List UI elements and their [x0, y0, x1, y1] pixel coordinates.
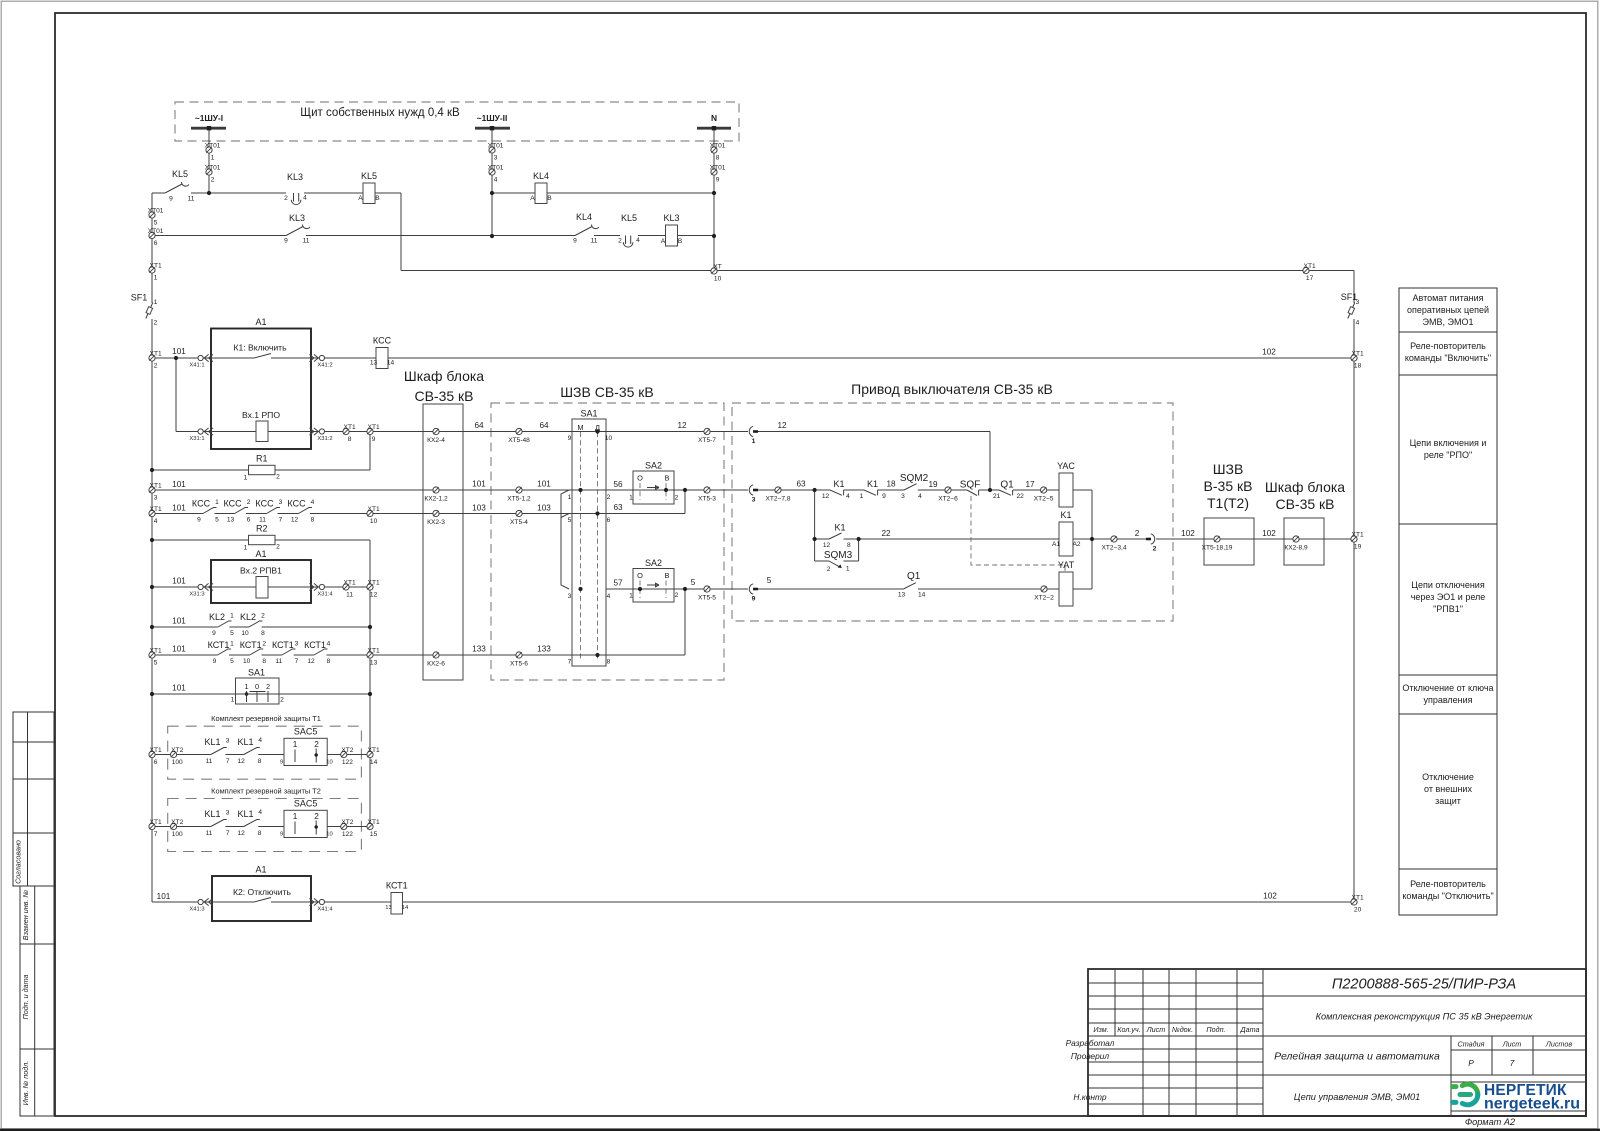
stamp box Soglasovano	[13, 712, 54, 886]
svg-text:9: 9	[716, 177, 720, 184]
logo Energeteek	[1462, 1084, 1478, 1094]
svg-text:12: 12	[822, 493, 830, 500]
svg-text:XT1: XT1	[368, 647, 380, 654]
wire RPV1 line b	[268, 586, 370, 588]
svg-text:9: 9	[169, 196, 173, 203]
svg-text:В: В	[665, 571, 670, 580]
svg-text:через ЭО1 и реле: через ЭО1 и реле	[1411, 592, 1486, 602]
svg-text:В-35 кВ: В-35 кВ	[1204, 478, 1253, 494]
svg-text:14: 14	[918, 592, 926, 599]
junction KL2-r	[368, 625, 372, 629]
coil SAC5 T1	[284, 738, 327, 765]
svg-text:X31:2: X31:2	[317, 436, 332, 442]
coil YAC	[1059, 473, 1073, 507]
svg-text:СВ-35 кВ: СВ-35 кВ	[414, 388, 473, 404]
svg-text:2: 2	[1135, 529, 1140, 538]
terminal XT01-6	[149, 232, 155, 238]
svg-text:КСТ1: КСТ1	[386, 881, 408, 891]
svg-text:Лист: Лист	[1502, 1040, 1522, 1049]
svg-text:КХ2-8,9: КХ2-8,9	[1284, 545, 1308, 552]
cable connector input 9	[749, 584, 753, 594]
junction SA2b	[638, 587, 642, 591]
svg-text:~1ШУ-II: ~1ШУ-II	[477, 113, 508, 123]
svg-text:Инв. № подл.: Инв. № подл.	[21, 1061, 30, 1106]
svg-text:Подп.: Подп.	[1206, 1025, 1225, 1034]
svg-text:12: 12	[777, 421, 787, 430]
svg-text:8: 8	[327, 658, 331, 665]
contact K1 Vklyuchit	[254, 354, 271, 359]
svg-text:Комплект резервной защиты Т1: Комплект резервной защиты Т1	[211, 714, 321, 723]
svg-text:XT1: XT1	[150, 262, 162, 269]
svg-text:122: 122	[342, 831, 353, 838]
wire right vertical bus	[1353, 358, 1355, 902]
contact K1 12-8	[829, 533, 842, 539]
svg-text:1: 1	[860, 493, 864, 500]
svg-text:КСС: КСС	[287, 499, 306, 509]
junction 101 tap	[174, 356, 178, 360]
wire line2 b	[306, 235, 575, 237]
wire 63 privod c	[878, 489, 905, 491]
svg-text:1: 1	[230, 613, 234, 620]
svg-text:10: 10	[241, 630, 249, 637]
svg-text:Р: Р	[1468, 1058, 1474, 1068]
junction RPV1	[150, 585, 154, 589]
svg-text:2: 2	[247, 499, 251, 506]
connector X41:2	[319, 355, 324, 360]
svg-text:63: 63	[613, 503, 623, 512]
terminal XT1-15	[367, 823, 373, 829]
wire line1 d	[492, 192, 535, 194]
svg-text:4: 4	[1356, 320, 1360, 327]
svg-text:"РПВ1": "РПВ1"	[1433, 604, 1463, 614]
svg-text:2: 2	[154, 320, 158, 327]
svg-text:2: 2	[261, 613, 265, 620]
contact KCC 2	[235, 508, 249, 514]
wire SA1small line	[152, 693, 370, 695]
svg-text:B: B	[547, 195, 552, 202]
svg-text:7: 7	[154, 831, 158, 838]
svg-text:XT2: XT2	[171, 819, 183, 826]
svg-text:3: 3	[154, 495, 158, 502]
svg-text:122: 122	[342, 759, 353, 766]
svg-text:защит: защит	[1435, 796, 1461, 806]
page bottom edge	[0, 1129, 1600, 1131]
terminal XT01-4	[489, 169, 495, 175]
svg-text:2: 2	[618, 238, 622, 245]
svg-text:KL1: KL1	[237, 737, 253, 747]
terminal XT1-12	[367, 584, 373, 590]
coil Vx.2 RPV1	[256, 577, 268, 599]
contact KL3 9-11 line2	[286, 227, 303, 236]
svg-text:SAC5: SAC5	[294, 798, 318, 808]
svg-text:2: 2	[607, 494, 611, 501]
wire T2 line b	[225, 826, 243, 828]
svg-text:1: 1	[568, 494, 572, 501]
svg-text:A1: A1	[1052, 541, 1060, 548]
svg-text:2: 2	[675, 495, 679, 502]
contact KCC 1	[203, 508, 217, 514]
wire RPO line a	[176, 431, 256, 433]
svg-text:XT01: XT01	[710, 142, 726, 149]
junction SA1 d2	[595, 511, 599, 515]
svg-text:8: 8	[348, 436, 352, 443]
svg-text:10: 10	[605, 435, 613, 442]
svg-text:1: 1	[629, 495, 633, 502]
terminal XT1-11	[343, 584, 349, 590]
svg-text:КСС: КСС	[224, 499, 243, 509]
svg-text:KL2: KL2	[209, 612, 225, 622]
svg-text:КСС: КСС	[192, 499, 211, 509]
wire 103 line b	[215, 513, 235, 515]
svg-text:18: 18	[1354, 363, 1362, 370]
svg-text:K1: K1	[833, 479, 844, 489]
wire 5 privod b	[918, 588, 1059, 590]
svg-text:Листов: Листов	[1545, 1040, 1572, 1049]
terminal XT1-10	[367, 510, 373, 516]
wire XT1-9 drop	[369, 432, 371, 471]
svg-text:1: 1	[154, 275, 158, 282]
svg-text:реле "РПО": реле "РПО"	[1424, 450, 1472, 460]
svg-text:КХ2-4: КХ2-4	[427, 437, 445, 444]
wire line1 b	[304, 192, 363, 194]
svg-text:3: 3	[568, 593, 572, 600]
svg-text:Отключение: Отключение	[1422, 772, 1474, 782]
svg-text:Цепи управления ЭМВ, ЭМ01: Цепи управления ЭМВ, ЭМ01	[1294, 1092, 1421, 1102]
svg-text:101: 101	[472, 480, 486, 489]
terminal XT1-13	[367, 652, 373, 658]
svg-text:Q1: Q1	[1000, 480, 1014, 491]
wire T1 line b	[225, 754, 243, 756]
svg-text:5: 5	[568, 517, 572, 524]
wire 63 privod d	[918, 489, 967, 491]
svg-text:22: 22	[1017, 493, 1025, 500]
svg-text:XT2: XT2	[341, 747, 353, 754]
terminal XT1-2	[149, 355, 155, 361]
wire 102 line	[1156, 538, 1354, 540]
contact KCT1 3	[282, 649, 296, 655]
terminal XT1-8	[343, 428, 349, 434]
wire 22 vert	[814, 490, 816, 561]
svg-text:2: 2	[314, 740, 319, 749]
svg-text:ХТ5-6: ХТ5-6	[510, 661, 528, 668]
svg-text:4: 4	[258, 809, 262, 816]
svg-text:13: 13	[370, 360, 378, 367]
svg-text:A2: A2	[1072, 541, 1080, 548]
svg-text:2: 2	[827, 566, 831, 573]
svg-text:64: 64	[474, 421, 484, 430]
svg-text:101: 101	[172, 684, 186, 693]
svg-text:ХТ5-4: ХТ5-4	[510, 519, 528, 526]
terminal XT1-17	[1303, 267, 1309, 273]
svg-text:2: 2	[280, 697, 284, 704]
svg-text:КСТ1: КСТ1	[304, 640, 326, 650]
svg-text:XT01: XT01	[148, 228, 164, 235]
svg-text:7: 7	[1510, 1058, 1515, 1068]
svg-text:B: B	[375, 195, 380, 202]
connector X41:1	[198, 355, 203, 360]
svg-text:6: 6	[247, 517, 251, 524]
dashed box reserve T1	[168, 726, 362, 779]
svg-text:ХТ5-3: ХТ5-3	[698, 496, 716, 503]
junction R2	[150, 538, 154, 542]
svg-text:Т1(Т2): Т1(Т2)	[1207, 495, 1249, 511]
terminal XT01-2	[206, 169, 212, 175]
svg-text:ХТ2−5: ХТ2−5	[1034, 496, 1054, 503]
wire KL2 line c	[262, 626, 371, 628]
svg-text:~1ШУ-I: ~1ШУ-I	[195, 113, 223, 123]
svg-text:Цепи включения и: Цепи включения и	[1410, 438, 1487, 448]
svg-text:17: 17	[1306, 275, 1314, 282]
svg-text:5: 5	[691, 578, 696, 587]
wire bus1 drop	[208, 130, 210, 193]
svg-text:103: 103	[537, 504, 551, 513]
svg-text:Шкаф блока: Шкаф блока	[404, 368, 484, 384]
wire right SF1 to XT1-18	[1353, 319, 1355, 358]
svg-text:8: 8	[311, 517, 315, 524]
svg-text:5: 5	[230, 658, 234, 665]
svg-text:М: М	[577, 423, 583, 432]
wire K2 line a	[152, 901, 254, 903]
wire SQM3 rise	[858, 539, 860, 561]
svg-text:SA1: SA1	[580, 409, 597, 419]
svg-text:1: 1	[154, 299, 158, 306]
svg-text:SF1: SF1	[131, 293, 148, 303]
wire line1 a	[191, 192, 286, 194]
terminal XT2-6	[945, 487, 951, 493]
svg-text:K1: K1	[1060, 510, 1071, 520]
svg-text:A1: A1	[255, 865, 266, 875]
junction privod 22a	[813, 537, 817, 541]
svg-text:П2200888-565-25/ПИР-РЗА: П2200888-565-25/ПИР-РЗА	[1332, 977, 1516, 993]
svg-text:X41:4: X41:4	[317, 907, 333, 913]
junction privod SQF	[988, 488, 992, 492]
svg-text:SA2: SA2	[645, 558, 662, 568]
wire 103 line a	[152, 513, 203, 515]
svg-text:ХТ5-18,19: ХТ5-18,19	[1202, 545, 1233, 552]
svg-text:14: 14	[370, 759, 378, 766]
svg-text:11: 11	[188, 196, 195, 203]
svg-text:R2: R2	[256, 523, 268, 533]
svg-text:21: 21	[993, 493, 1001, 500]
svg-text:XT01: XT01	[205, 142, 221, 149]
svg-text:3: 3	[1356, 299, 1360, 306]
svg-text:XT01: XT01	[205, 164, 221, 171]
wire 57 line	[606, 588, 748, 590]
terminal XT01-3	[489, 147, 495, 153]
terminal XT2-7,8	[775, 487, 781, 493]
svg-text:Автомат питания: Автомат питания	[1412, 293, 1483, 303]
svg-text:ХТ5-5: ХТ5-5	[698, 595, 716, 602]
svg-text:XT1: XT1	[368, 424, 380, 431]
contact KL2 2	[249, 621, 263, 627]
wire T2 line a	[152, 826, 211, 828]
svg-text:1: 1	[215, 499, 219, 506]
terminal KX2-8,9	[1293, 536, 1299, 542]
terminal XT5-48	[516, 428, 522, 434]
svg-text:1: 1	[629, 593, 633, 600]
junction SA1 d1	[595, 429, 599, 433]
svg-text:3: 3	[279, 499, 283, 506]
svg-text:101: 101	[172, 480, 186, 489]
contact KCC 3	[267, 508, 281, 514]
svg-text:1: 1	[293, 740, 298, 749]
svg-text:управления: управления	[1423, 695, 1472, 705]
terminal XT2-100 T2	[171, 823, 177, 829]
svg-text:12: 12	[307, 658, 315, 665]
wire K2 line to XT1-20	[403, 901, 1355, 903]
terminal XT1-14	[367, 751, 373, 757]
terminal XT5-6	[516, 652, 522, 658]
terminal XT01-9	[711, 169, 717, 175]
svg-text:19: 19	[928, 480, 938, 489]
device A1 box 2	[211, 560, 311, 603]
svg-text:XT1: XT1	[150, 506, 162, 513]
svg-text:13: 13	[898, 592, 906, 599]
svg-text:102: 102	[1262, 529, 1276, 538]
svg-text:11: 11	[206, 758, 213, 765]
svg-text:K1: K1	[867, 479, 878, 489]
junction busN-L1	[712, 191, 716, 195]
wire bus2 drop	[491, 130, 493, 236]
svg-text:3: 3	[226, 738, 230, 745]
contact KCC 4	[299, 508, 313, 514]
svg-text:КСТ1: КСТ1	[208, 640, 230, 650]
terminal XT2-2	[1041, 586, 1047, 592]
svg-text:4: 4	[327, 641, 331, 648]
svg-text:B: B	[678, 238, 683, 245]
svg-text:9: 9	[212, 630, 216, 637]
svg-text:Согласовано: Согласовано	[14, 840, 23, 884]
contact KL1 3 T2	[211, 820, 227, 827]
svg-text:2: 2	[266, 682, 270, 691]
svg-text:KL4: KL4	[533, 171, 549, 181]
wire 63 privod f	[1013, 489, 1059, 491]
svg-text:ХТ2−2: ХТ2−2	[1034, 595, 1054, 602]
wire 12 line	[757, 431, 991, 433]
svg-text:A1: A1	[255, 549, 266, 559]
svg-text:2: 2	[276, 544, 280, 551]
wire busN drop	[713, 130, 715, 271]
svg-text:8: 8	[607, 659, 611, 666]
svg-text:9: 9	[568, 435, 572, 442]
svg-text:KL3: KL3	[663, 213, 679, 223]
svg-text:KL1: KL1	[237, 809, 253, 819]
breaker SF1 left	[146, 303, 153, 319]
svg-text:13: 13	[370, 660, 378, 667]
contact K1 1-9 privod	[864, 490, 876, 495]
connector X41:3	[198, 899, 203, 904]
svg-text:Реле-повторитель: Реле-повторитель	[1410, 879, 1486, 889]
terminal XT1-18	[1351, 355, 1357, 361]
wire 103 line c	[246, 513, 267, 515]
svg-text:КХ2-3: КХ2-3	[427, 519, 445, 526]
svg-text:XT1: XT1	[368, 747, 380, 754]
svg-text:XT1: XT1	[344, 579, 356, 586]
svg-text:11: 11	[206, 830, 213, 837]
svg-text:18: 18	[886, 480, 896, 489]
svg-text:XT: XT	[713, 263, 721, 270]
svg-text:11: 11	[591, 238, 598, 245]
svg-text:4: 4	[154, 518, 158, 525]
coil KCC	[376, 348, 388, 369]
svg-text:SAC5: SAC5	[294, 726, 318, 736]
svg-text:KL5: KL5	[172, 169, 188, 179]
terminal XT-10	[711, 268, 717, 274]
svg-text:4: 4	[846, 493, 850, 500]
contact KL4 9-11 line2	[575, 227, 592, 236]
svg-text:KL5: KL5	[361, 171, 377, 181]
svg-text:5: 5	[767, 576, 772, 585]
svg-text:8: 8	[258, 758, 262, 765]
svg-text:9: 9	[882, 493, 886, 500]
svg-text:№док.: №док.	[1172, 1025, 1193, 1034]
junction privod 22b	[857, 537, 861, 541]
contact KL1 4 T1	[244, 748, 260, 755]
bus ~1ShU-I	[191, 127, 226, 130]
svg-text:5: 5	[154, 220, 158, 227]
svg-text:X31:3: X31:3	[189, 592, 204, 598]
svg-text:XT1: XT1	[150, 350, 162, 357]
junction privod 63	[813, 488, 817, 492]
svg-text:11: 11	[346, 592, 353, 599]
wire KL2 line a	[152, 626, 218, 628]
wire 63 link	[606, 513, 685, 515]
stamp box Vzamen inv	[20, 886, 54, 944]
wire mid vertical	[369, 540, 371, 827]
svg-text:Лист: Лист	[1146, 1025, 1166, 1034]
svg-text:XT2: XT2	[341, 819, 353, 826]
svg-text:6: 6	[154, 240, 158, 247]
terminal XT1-6	[149, 751, 155, 757]
terminal XT1-4	[149, 510, 155, 516]
wire K2 line b	[271, 901, 391, 903]
wire RPO line b	[268, 431, 748, 433]
svg-text:KL3: KL3	[289, 213, 305, 223]
contact KCT1 2	[250, 649, 264, 655]
terminal XT1-1	[149, 267, 155, 273]
wire KCT1 line b	[229, 654, 250, 656]
svg-text:О: О	[637, 474, 643, 483]
svg-text:7: 7	[279, 517, 283, 524]
dashed box Privod	[732, 403, 1173, 621]
junction SA1s-r	[368, 692, 372, 696]
svg-text:10: 10	[243, 658, 251, 665]
cable connector input 1	[749, 426, 753, 436]
svg-text:XT01: XT01	[488, 164, 504, 171]
terminal XT2-5	[1041, 487, 1047, 493]
svg-text:XT1: XT1	[1352, 531, 1364, 538]
bus N	[697, 127, 731, 130]
svg-text:9: 9	[573, 238, 577, 245]
svg-text:101: 101	[172, 645, 186, 654]
svg-text:Взамен инв. №: Взамен инв. №	[21, 890, 30, 941]
svg-text:XT01: XT01	[488, 142, 504, 149]
svg-text:A1: A1	[255, 317, 266, 327]
svg-text:101: 101	[172, 347, 186, 356]
wire K1coil right	[1073, 538, 1092, 540]
svg-text:N: N	[711, 113, 717, 123]
switch SA2 top box	[633, 471, 674, 504]
svg-text:7: 7	[226, 758, 230, 765]
contact KCT1 1	[218, 649, 232, 655]
coil YAT	[1059, 572, 1073, 606]
svg-text:12: 12	[238, 830, 246, 837]
svg-text:133: 133	[472, 645, 486, 654]
wire T1 line a	[152, 754, 211, 756]
svg-text:Дата: Дата	[1240, 1025, 1260, 1034]
svg-text:1: 1	[846, 566, 850, 573]
svg-text:12: 12	[238, 758, 246, 765]
